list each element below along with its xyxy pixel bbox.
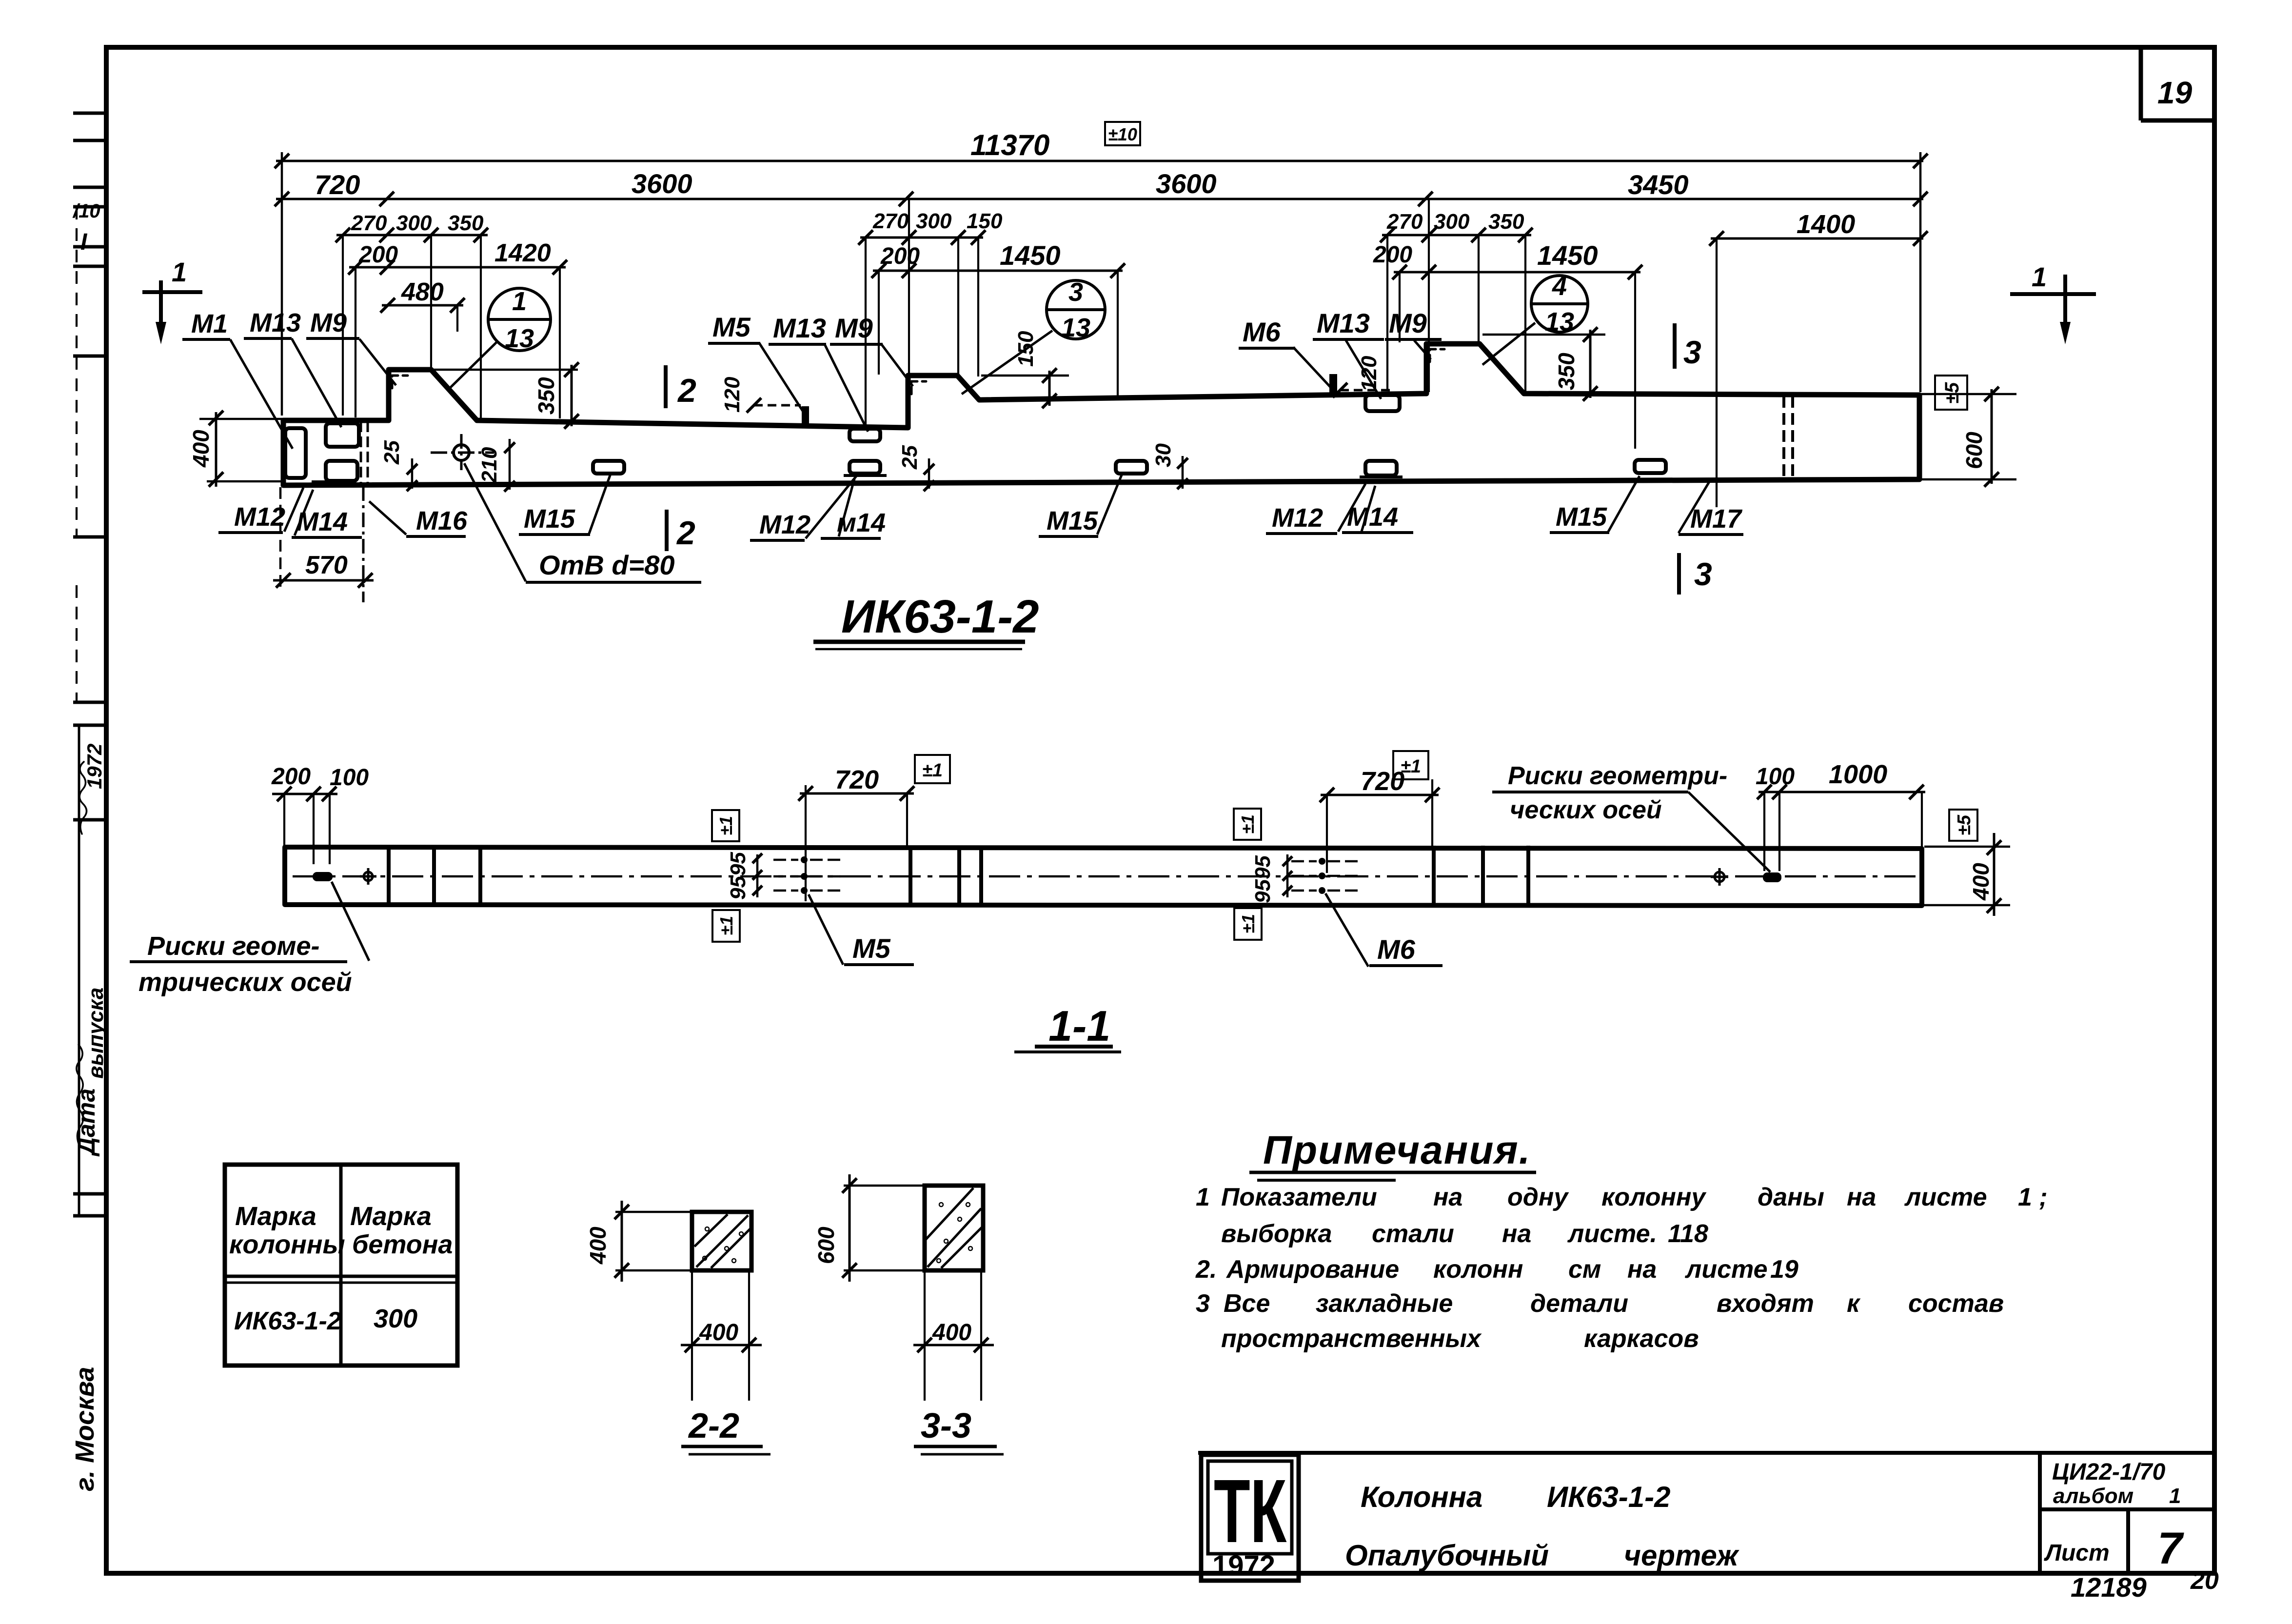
svg-text:выпуска: выпуска: [84, 988, 108, 1079]
svg-text:100: 100: [330, 765, 369, 791]
svg-text:200: 200: [1373, 242, 1412, 268]
tolerance box ±5 (elevation right): [1935, 376, 1967, 410]
svg-text:1: 1: [2169, 1484, 2181, 1508]
svg-text:400: 400: [585, 1227, 611, 1265]
tolerance box ±1 below (right): [1234, 908, 1262, 940]
dimension 11370 ±10 (row A): [276, 160, 1923, 162]
svg-text:Лист: Лист: [2044, 1540, 2110, 1566]
М5 anchor dots: [801, 856, 808, 863]
svg-text:1: 1: [2032, 261, 2047, 292]
svg-text:11370: 11370: [970, 129, 1049, 161]
sheet number box 19: [2139, 49, 2143, 120]
extension dashed line at left end bottom: [279, 487, 282, 588]
svg-text:600: 600: [813, 1227, 839, 1264]
detail circle 4/13: [1531, 276, 1588, 332]
svg-text:М12: М12: [759, 510, 810, 539]
embedded part М17 dashed lines: [1782, 396, 1785, 479]
dimension 100 1000 (1-1 right): [1759, 791, 1925, 793]
tolerance box ±1 above (left): [712, 810, 739, 841]
svg-text:720: 720: [315, 169, 360, 200]
svg-text:400: 400: [1968, 863, 1994, 901]
ТК logo outer box: [1201, 1455, 1299, 1581]
svg-text:М13: М13: [250, 308, 301, 337]
svg-text:200: 200: [880, 243, 920, 269]
svg-text:1450: 1450: [1537, 240, 1598, 271]
svg-text:150: 150: [967, 209, 1003, 233]
svg-text:М9: М9: [310, 308, 347, 337]
svg-text:200: 200: [358, 242, 398, 268]
svg-text:13: 13: [1545, 307, 1574, 337]
riska mark (right): [1763, 872, 1781, 882]
svg-text:на: на: [1502, 1220, 1531, 1248]
dimension 200 + 1450 (console 2): [873, 270, 1123, 272]
shim line under М14 console 3: [1360, 475, 1403, 478]
svg-text:350: 350: [448, 211, 484, 235]
svg-text:альбом: альбом: [2053, 1484, 2134, 1508]
svg-text:120: 120: [720, 376, 744, 413]
svg-text:400: 400: [932, 1320, 971, 1346]
svg-text:состав: состав: [1908, 1289, 2004, 1318]
svg-text:закладные: закладные: [1316, 1289, 1453, 1318]
svg-text:1450: 1450: [1000, 240, 1061, 271]
svg-text:1420: 1420: [494, 239, 551, 267]
svg-text:480: 480: [401, 278, 444, 306]
svg-text:I: I: [80, 229, 88, 255]
ТК logo letters: [1214, 1461, 1287, 1562]
section 3-3 rectangle: [925, 1186, 983, 1270]
centre hole mark right: [1715, 872, 1724, 882]
svg-text:720: 720: [1361, 767, 1404, 796]
svg-text:25: 25: [898, 445, 922, 470]
dimension 200 100 (1-1 left): [272, 793, 337, 795]
svg-text:350: 350: [533, 377, 559, 415]
leader from circle 3/13 to slope: [962, 331, 1052, 394]
embedded plate М14, console 2: [850, 461, 880, 474]
svg-text:каркасов: каркасов: [1584, 1325, 1699, 1353]
svg-text:300: 300: [916, 209, 952, 233]
embedded plate М13, console 1: [326, 423, 359, 447]
embedded plate М9 dashed mark, console 1: [392, 376, 408, 388]
svg-text:колонн: колонн: [1433, 1255, 1523, 1284]
svg-text:Марка: Марка: [350, 1202, 432, 1231]
dimension 720 with ±1 (1-1 middle-left): [800, 792, 914, 795]
left margin ruler ticks: [73, 112, 106, 115]
svg-text:трических осей: трических осей: [138, 968, 352, 997]
svg-text:бетона: бетона: [352, 1230, 453, 1259]
section 1-1 bar outline: [285, 847, 1922, 906]
section 3-3 vertical dimension 600: [844, 1185, 925, 1187]
margin signature squiggle: [79, 762, 87, 834]
margin signature squiggle 2: [77, 1045, 83, 1146]
svg-text:Колонна: Колонна: [1361, 1481, 1482, 1513]
svg-text:М17: М17: [1690, 504, 1743, 534]
svg-text:/10: /10: [72, 200, 100, 222]
ТК logo inner box: [1208, 1461, 1292, 1554]
svg-text:270: 270: [872, 209, 909, 233]
svg-text:3: 3: [1196, 1289, 1210, 1318]
svg-text:Марка: Марка: [235, 1202, 316, 1231]
section flag 2 (upper): [664, 365, 668, 408]
svg-text:М16: М16: [416, 506, 468, 535]
svg-text:400: 400: [188, 430, 214, 468]
1-1 division lines: [387, 847, 391, 905]
dimension 480 (console 1): [382, 304, 463, 307]
svg-text:ческих осей: ческих осей: [1510, 796, 1662, 824]
svg-text:19: 19: [1770, 1255, 1798, 1284]
svg-text:листе: листе: [1684, 1255, 1768, 1284]
svg-text:20: 20: [2190, 1566, 2219, 1595]
svg-text:9595: 9595: [726, 852, 750, 900]
tolerance box ±1 above (right): [1234, 809, 1261, 840]
svg-text:Опалубочный: Опалубочный: [1345, 1539, 1549, 1572]
1-1 centerline: [293, 875, 1919, 878]
svg-text:1: 1: [172, 257, 187, 287]
embedded plate М6 notch on top edge: [1329, 374, 1337, 394]
svg-text:570: 570: [305, 551, 348, 579]
section 3-3 hatching: [928, 1208, 981, 1267]
svg-text:пространственных: пространственных: [1221, 1325, 1482, 1353]
svg-text:1000: 1000: [1829, 760, 1887, 789]
section flag 3 (lower): [1677, 553, 1681, 594]
svg-text:М5: М5: [712, 312, 751, 342]
section flag 3 (upper): [1673, 323, 1677, 369]
svg-text:2: 2: [677, 372, 696, 409]
svg-text:М15: М15: [1556, 502, 1607, 532]
title block top line: [1198, 1451, 2214, 1455]
svg-text:входят: входят: [1717, 1289, 1814, 1318]
svg-text:М15: М15: [524, 504, 575, 534]
detail circle 3/13: [1047, 280, 1105, 339]
svg-text:270: 270: [1386, 210, 1423, 234]
detail circle 1/13: [488, 288, 551, 351]
svg-text:400: 400: [699, 1320, 738, 1346]
dimension 1400 (right): [1711, 238, 1923, 240]
svg-text:19: 19: [2157, 75, 2193, 110]
embedded plate М15 #1: [593, 461, 624, 474]
svg-text:±1: ±1: [1238, 914, 1258, 933]
svg-text:ОтВ d=80: ОтВ d=80: [539, 550, 675, 580]
svg-text:Примечания.: Примечания.: [1263, 1128, 1531, 1172]
svg-text:листе: листе: [1904, 1183, 1987, 1211]
embedded plate М5 notch on top edge: [802, 406, 809, 428]
svg-text:2-2: 2-2: [688, 1406, 739, 1446]
svg-text:7: 7: [2157, 1524, 2184, 1573]
svg-text:М5: М5: [852, 933, 891, 964]
svg-text:даны: даны: [1758, 1183, 1824, 1211]
leader from circle 4/13 to slope: [1482, 323, 1535, 365]
svg-text:600: 600: [1961, 432, 1987, 469]
svg-text:±1: ±1: [1238, 814, 1258, 834]
svg-text:30: 30: [1151, 443, 1175, 467]
embedded plate М9 dashed mark, console 2: [911, 381, 926, 394]
dimension 720 with ±1 (1-1 middle-right): [1321, 794, 1439, 796]
svg-text:3600: 3600: [632, 168, 692, 199]
svg-text:ИК63-1-2: ИК63-1-2: [234, 1307, 341, 1335]
dimension 200 + 1420 (console 1): [349, 266, 566, 269]
svg-text:118: 118: [1668, 1220, 1708, 1248]
svg-text:±1: ±1: [922, 760, 943, 781]
embedded plate М13, console 2: [850, 429, 880, 441]
dimension group 270 300 350 (console 3): [1382, 234, 1531, 237]
svg-text:1400: 1400: [1797, 210, 1855, 239]
embedded plate М13, console 3: [1365, 395, 1400, 411]
svg-text:±5: ±5: [1941, 382, 1963, 404]
svg-text:1: 1: [1196, 1183, 1210, 1211]
section 2-2 hatching: [696, 1215, 748, 1267]
leader from circle 1/13 to slope: [448, 341, 497, 390]
svg-text:13: 13: [1061, 313, 1090, 342]
section 2-2 horizontal dimension 400: [691, 1270, 693, 1401]
svg-text:120: 120: [1357, 356, 1381, 392]
svg-text:М12: М12: [1272, 503, 1323, 533]
section flag 2 (lower): [665, 510, 669, 551]
svg-text:3: 3: [1068, 277, 1083, 307]
svg-text:9595: 9595: [1251, 855, 1275, 903]
section 2-2 vertical dimension 400: [615, 1211, 692, 1213]
svg-text:М9: М9: [835, 313, 873, 343]
svg-text:М9: М9: [1389, 308, 1427, 338]
svg-text:100: 100: [1756, 764, 1795, 790]
embedded plate М15 #3: [1635, 460, 1666, 473]
svg-text:на: на: [1847, 1183, 1876, 1211]
centre hole mark left: [364, 872, 373, 881]
svg-text:М14: М14: [1347, 502, 1398, 532]
svg-text:1: 1: [512, 287, 527, 316]
svg-text:М15: М15: [1047, 506, 1098, 535]
svg-text:ТК: ТК: [1214, 1461, 1287, 1562]
svg-text:350: 350: [1554, 353, 1579, 390]
svg-text:листе.: листе.: [1567, 1220, 1657, 1248]
embedded plate М14, console 3: [1365, 461, 1397, 475]
vertical dimension 400 (1-1 right end): [1924, 846, 2010, 848]
svg-text:3-3: 3-3: [921, 1406, 971, 1446]
svg-text:М12: М12: [234, 502, 285, 532]
vertical dimension 150, console 2: [981, 375, 1069, 377]
svg-text:М1: М1: [191, 309, 228, 338]
svg-text:ИК63-1-2: ИК63-1-2: [1547, 1481, 1670, 1513]
svg-text:4: 4: [1552, 272, 1567, 301]
svg-text:±1: ±1: [716, 916, 736, 935]
vertical dimension 350, console 1: [431, 369, 578, 371]
vertical dimension 350, console 3: [1482, 334, 1605, 336]
left margin inner line: [76, 207, 78, 537]
svg-text:на: на: [1627, 1255, 1657, 1284]
tolerance box ±1 below (left): [712, 910, 740, 942]
svg-text:350: 350: [1488, 210, 1524, 234]
95 95 dimension (right): [1286, 854, 1289, 897]
dimension group 270 300 350 (console 1): [336, 234, 488, 237]
svg-text:210: 210: [477, 447, 501, 483]
svg-text:1972: 1972: [1212, 1550, 1275, 1582]
svg-text:М6: М6: [1377, 934, 1416, 965]
svg-text:см: см: [1568, 1255, 1601, 1284]
section mark 1 (left): [142, 290, 202, 294]
svg-text:3450: 3450: [1628, 169, 1689, 200]
svg-text:М6: М6: [1243, 317, 1281, 347]
svg-text:720: 720: [835, 765, 879, 794]
title block divider (right sub-block): [2038, 1453, 2042, 1571]
tolerance box ±5 (1-1 right): [1949, 810, 1977, 841]
svg-text:г. Москва: г. Москва: [70, 1367, 99, 1491]
svg-text:чертеж: чертеж: [1624, 1539, 1739, 1572]
svg-text:3: 3: [1694, 556, 1712, 592]
svg-text:25: 25: [380, 440, 404, 465]
dimension 200 + 1450 (console 3): [1394, 271, 1640, 274]
svg-text:детали: детали: [1530, 1289, 1628, 1318]
svg-text:ИК63-1-2: ИК63-1-2: [841, 591, 1039, 643]
svg-text:2.: 2.: [1195, 1255, 1217, 1284]
svg-text:колонну: колонну: [1601, 1183, 1707, 1211]
embedded plate М14, console 1: [326, 461, 357, 481]
М6 anchor dots: [1319, 858, 1325, 865]
svg-text:к: к: [1847, 1289, 1861, 1318]
svg-text:±5: ±5: [1954, 814, 1975, 835]
svg-text:одну: одну: [1507, 1183, 1569, 1211]
shim line under М14 console 2: [844, 474, 887, 477]
embedded plate М15 #2: [1116, 461, 1147, 474]
svg-text:ЦИ22-1/70: ЦИ22-1/70: [2052, 1459, 2166, 1485]
svg-text:300: 300: [374, 1304, 417, 1333]
svg-text:±10: ±10: [1108, 124, 1137, 144]
svg-text:12189: 12189: [2071, 1572, 2147, 1603]
dimension 120 with М6 notch, console 3: [1340, 389, 1395, 392]
svg-text:3600: 3600: [1156, 168, 1217, 199]
svg-text:Показатели: Показатели: [1221, 1183, 1377, 1211]
svg-text:300: 300: [1434, 210, 1470, 234]
svg-text:колонны: колонны: [229, 1230, 345, 1259]
svg-text:выборка: выборка: [1221, 1220, 1332, 1248]
marking table: [225, 1165, 457, 1366]
svg-text:300: 300: [396, 211, 432, 235]
svg-text:Риски геоме-: Риски геоме-: [147, 931, 320, 961]
hole centerlines: [431, 452, 494, 454]
svg-text:Риски геометри-: Риски геометри-: [1508, 762, 1727, 790]
svg-text:3: 3: [1683, 334, 1701, 370]
svg-text:13: 13: [505, 324, 534, 353]
embedded plate М9 dashed mark, console 3: [1430, 349, 1444, 362]
svg-text:М13: М13: [773, 313, 826, 343]
svg-text:2: 2: [676, 515, 695, 552]
embedded part М16 dash-dot lines: [360, 421, 362, 484]
svg-text:±1: ±1: [1401, 756, 1421, 777]
section 3-3 horizontal dimension 400: [924, 1270, 926, 1401]
hole Отв d=80: [454, 445, 469, 460]
svg-text:270: 270: [351, 211, 387, 235]
riska mark (left): [313, 872, 333, 881]
dimension group 270 300 150 (console 2): [860, 237, 983, 239]
svg-text:1 ;: 1 ;: [2018, 1183, 2048, 1211]
svg-text:Все: Все: [1224, 1289, 1270, 1318]
dimension 120 with М5 notch, console 2: [754, 404, 801, 407]
svg-text:стали: стали: [1372, 1220, 1454, 1248]
svg-text:на: на: [1433, 1183, 1462, 1211]
dimension row 720 / 3600 / 3600 / 3450 (row B): [276, 198, 1923, 200]
svg-text:200: 200: [271, 764, 311, 790]
section mark 1 (right): [2010, 292, 2096, 296]
svg-text:М13: М13: [1317, 308, 1370, 338]
section 2-2 square: [692, 1212, 751, 1270]
shim lines under М14 console 1: [312, 480, 347, 483]
svg-text:1-1: 1-1: [1048, 1002, 1110, 1050]
embedded plate М1 (left end): [285, 428, 306, 478]
svg-text:Армирование: Армирование: [1225, 1255, 1399, 1284]
column ИК63-1-2 elevation outline: [283, 344, 1919, 485]
dimension 570: [273, 579, 374, 582]
svg-text:±1: ±1: [716, 816, 736, 835]
95 95 dimension (left): [756, 854, 759, 897]
